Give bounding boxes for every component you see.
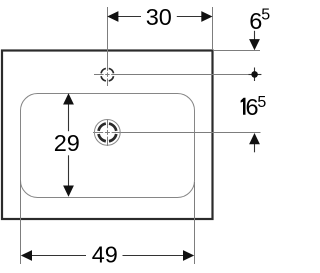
- svg-text:49: 49: [92, 241, 118, 267]
- svg-text:30: 30: [146, 4, 172, 30]
- svg-text:5: 5: [261, 7, 270, 24]
- svg-text:29: 29: [54, 130, 80, 156]
- svg-text:5: 5: [257, 94, 266, 111]
